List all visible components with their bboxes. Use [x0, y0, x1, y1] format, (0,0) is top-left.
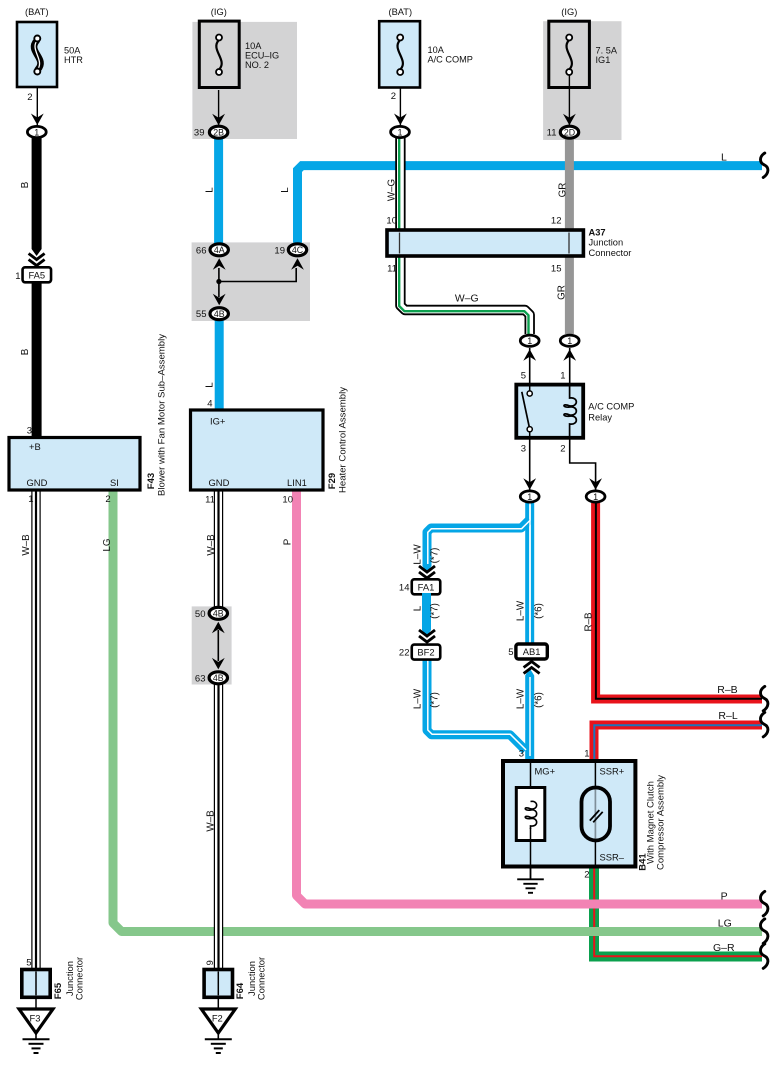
svg-text:1: 1: [397, 127, 402, 137]
svg-text:10A: 10A: [245, 41, 262, 51]
svg-text:2: 2: [105, 494, 110, 505]
svg-text:3: 3: [27, 426, 32, 437]
svg-text:5: 5: [521, 371, 526, 382]
svg-text:W–B: W–B: [206, 810, 217, 832]
svg-text:2: 2: [584, 870, 589, 881]
svg-text:(*7): (*7): [430, 692, 441, 708]
svg-text:B: B: [20, 181, 31, 188]
svg-text:L: L: [205, 187, 216, 193]
svg-text:FA1: FA1: [418, 581, 435, 592]
svg-text:L–W: L–W: [413, 544, 424, 565]
svg-text:2B: 2B: [213, 128, 224, 138]
svg-text:4: 4: [207, 399, 212, 410]
svg-text:P: P: [283, 538, 294, 545]
svg-text:L–W: L–W: [413, 688, 424, 709]
svg-text:1: 1: [584, 749, 589, 760]
svg-text:4B: 4B: [214, 309, 225, 319]
svg-text:22: 22: [399, 648, 410, 659]
svg-text:1: 1: [527, 336, 532, 346]
svg-text:11: 11: [387, 264, 397, 275]
svg-text:L–W: L–W: [516, 688, 527, 709]
svg-text:55: 55: [196, 309, 207, 320]
svg-text:2: 2: [560, 444, 565, 455]
svg-text:Compressor Assembly: Compressor Assembly: [656, 775, 667, 870]
svg-text:A/C COMP: A/C COMP: [428, 54, 473, 64]
svg-text:W–G: W–G: [387, 179, 398, 201]
svg-text:(BAT): (BAT): [25, 7, 49, 17]
svg-text:+B: +B: [29, 441, 41, 452]
svg-text:4C: 4C: [292, 245, 304, 255]
svg-text:(BAT): (BAT): [389, 7, 413, 17]
svg-text:9: 9: [205, 960, 216, 965]
svg-text:GR: GR: [558, 183, 569, 198]
svg-text:GND: GND: [27, 477, 48, 488]
svg-text:5: 5: [508, 647, 513, 658]
svg-text:GR: GR: [557, 285, 568, 300]
svg-text:R–B: R–B: [584, 612, 595, 632]
svg-text:GND: GND: [209, 477, 230, 488]
svg-text:Junction: Junction: [589, 238, 624, 248]
svg-text:(*6): (*6): [534, 692, 545, 708]
svg-text:19: 19: [274, 245, 285, 256]
svg-text:Connector: Connector: [73, 957, 84, 1000]
svg-text:IG+: IG+: [210, 416, 226, 427]
svg-text:4B: 4B: [213, 609, 224, 619]
svg-text:MG+: MG+: [535, 765, 556, 776]
svg-text:66: 66: [196, 245, 207, 256]
svg-text:(*7): (*7): [430, 548, 441, 564]
svg-text:Connector: Connector: [589, 248, 632, 258]
svg-text:L: L: [280, 187, 291, 193]
svg-text:1: 1: [527, 492, 532, 502]
svg-text:Blower with Fan Motor Sub–Asse: Blower with Fan Motor Sub–Assembly: [157, 334, 168, 496]
svg-text:F3: F3: [30, 1013, 41, 1024]
svg-text:3: 3: [521, 444, 526, 455]
svg-text:SSR+: SSR+: [600, 765, 625, 776]
svg-text:11: 11: [547, 128, 557, 139]
svg-text:G–R: G–R: [713, 942, 735, 954]
svg-text:R–B: R–B: [717, 684, 737, 696]
svg-text:NO. 2: NO. 2: [245, 60, 269, 70]
svg-text:1: 1: [567, 336, 572, 346]
svg-text:LG: LG: [102, 538, 113, 551]
svg-text:10: 10: [386, 216, 397, 227]
svg-text:4B: 4B: [213, 673, 224, 683]
svg-text:AB1: AB1: [523, 646, 541, 657]
svg-text:F29: F29: [327, 473, 338, 489]
svg-text:39: 39: [194, 128, 205, 139]
svg-text:1: 1: [28, 494, 33, 505]
svg-text:B: B: [20, 348, 31, 355]
svg-text:5: 5: [26, 958, 31, 969]
svg-text:12: 12: [551, 216, 562, 227]
svg-text:IG1: IG1: [596, 55, 611, 65]
svg-text:W–B: W–B: [206, 534, 217, 556]
svg-text:(*7): (*7): [430, 603, 441, 619]
svg-text:L: L: [721, 152, 727, 164]
svg-text:HTR: HTR: [64, 55, 83, 65]
svg-text:SI: SI: [110, 477, 119, 488]
svg-text:1: 1: [34, 127, 39, 137]
svg-text:50: 50: [195, 609, 206, 620]
svg-text:14: 14: [399, 582, 410, 593]
svg-text:L: L: [205, 382, 216, 388]
svg-text:F43: F43: [146, 473, 157, 489]
svg-text:2: 2: [27, 92, 32, 103]
svg-text:Connector: Connector: [255, 957, 266, 1000]
svg-text:W–G: W–G: [455, 293, 479, 304]
svg-text:F2: F2: [212, 1013, 223, 1024]
svg-text:2D: 2D: [564, 128, 575, 138]
svg-text:50A: 50A: [64, 45, 81, 55]
svg-text:LIN1: LIN1: [287, 477, 307, 488]
svg-text:SSR–: SSR–: [600, 852, 625, 863]
svg-text:ECU–IG: ECU–IG: [245, 51, 279, 61]
svg-text:Relay: Relay: [588, 413, 612, 423]
svg-text:(*6): (*6): [534, 603, 545, 619]
svg-text:1: 1: [593, 492, 598, 502]
svg-text:11: 11: [205, 495, 215, 506]
svg-text:W–B: W–B: [21, 534, 32, 556]
svg-text:F64: F64: [235, 982, 246, 999]
svg-text:3: 3: [519, 749, 524, 760]
svg-text:(IG): (IG): [211, 7, 227, 17]
svg-text:1: 1: [560, 371, 565, 382]
svg-text:Heater Control Assembly: Heater Control Assembly: [338, 387, 349, 493]
svg-text:63: 63: [195, 673, 206, 684]
svg-text:10: 10: [282, 495, 293, 506]
svg-text:F65: F65: [53, 982, 64, 999]
svg-text:R–L: R–L: [718, 710, 737, 722]
svg-text:L: L: [413, 605, 424, 611]
svg-text:FA5: FA5: [28, 269, 45, 280]
svg-text:L–W: L–W: [516, 600, 527, 621]
svg-text:A37: A37: [589, 227, 606, 237]
svg-text:15: 15: [551, 264, 562, 275]
svg-text:BF2: BF2: [417, 647, 434, 658]
svg-text:P: P: [721, 891, 728, 903]
svg-text:1: 1: [15, 271, 20, 282]
svg-text:LG: LG: [718, 918, 732, 930]
svg-text:(IG): (IG): [561, 7, 577, 17]
svg-text:A/C COMP: A/C COMP: [588, 401, 634, 411]
svg-text:4A: 4A: [214, 245, 225, 255]
svg-text:2: 2: [391, 91, 396, 102]
